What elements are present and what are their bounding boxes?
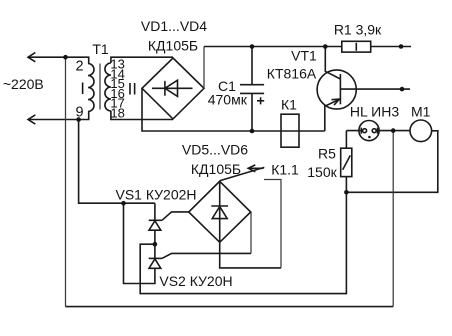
svg-text:VS1 КУ202Н: VS1 КУ202Н [115,187,196,203]
svg-text:~220В: ~220В [3,76,44,92]
svg-text:II: II [128,80,137,99]
svg-text:VT1: VT1 [291,48,317,64]
svg-text:9: 9 [75,105,83,121]
svg-text:Т1: Т1 [92,41,109,57]
svg-text:R5: R5 [318,146,336,162]
svg-text:I: I [80,79,85,98]
svg-text:VD5...VD6: VD5...VD6 [182,142,248,158]
svg-text:КД105Б: КД105Б [148,38,198,54]
svg-text:470мк: 470мк [208,92,248,108]
svg-text:18: 18 [110,106,124,121]
svg-text:HL ИН3: HL ИН3 [350,104,399,120]
svg-text:К1: К1 [281,97,297,113]
svg-text:VS2 КУ20Н: VS2 КУ20Н [159,273,232,289]
svg-text:М1: М1 [411,104,431,120]
svg-text:КТ816А: КТ816А [267,66,317,82]
svg-text:КД105Б: КД105Б [191,161,241,177]
svg-text:2: 2 [75,59,83,75]
svg-text:VD1...VD4: VD1...VD4 [141,18,207,34]
svg-text:150к: 150к [307,164,337,180]
svg-text:К1.1: К1.1 [271,162,299,178]
svg-text:R1 3,9к: R1 3,9к [334,22,382,38]
